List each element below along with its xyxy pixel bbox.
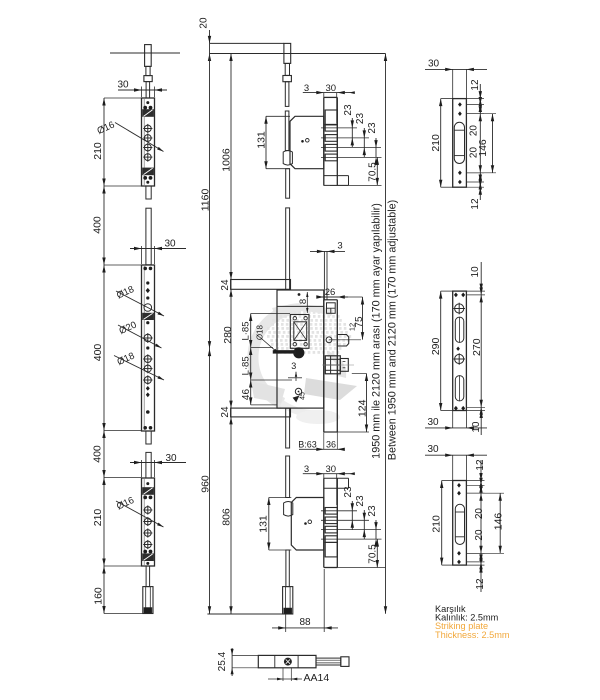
left view: door top reference line <box>110 52 180 54</box>
svg-text:30: 30 <box>164 239 176 250</box>
rod crossing upper bar <box>285 280 287 291</box>
bottom hook bolt body <box>325 542 337 557</box>
top case lower bracket <box>324 175 349 177</box>
svg-text:160: 160 <box>92 587 104 605</box>
plate3 screw holes <box>143 505 152 514</box>
plate2 hardware top pins <box>143 267 147 271</box>
top faceplate side view <box>323 97 325 185</box>
svg-text:23: 23 <box>355 495 366 507</box>
left view: top thin rod <box>146 82 150 98</box>
vertical dim line 1006/24/280/24/806 <box>230 54 232 614</box>
plate B slots <box>455 317 464 342</box>
dim 30 (plate3 top) <box>130 462 186 464</box>
dim 146 (plate C) <box>499 493 501 553</box>
left dim chain vertical line <box>103 98 105 614</box>
svg-text:Between 1950 mm and 2120 mm (1: Between 1950 mm and 2120 mm (170 mm adju… <box>386 200 398 460</box>
dim 25.4 (section) <box>231 648 233 676</box>
latch bolt <box>326 337 332 343</box>
middle top rod cylinder <box>284 43 291 63</box>
middle rod between top and middle case <box>286 169 290 199</box>
dim 23 staircase (bottom case) <box>351 501 353 530</box>
svg-text:12: 12 <box>475 578 486 590</box>
svg-text:L·85: L·85 <box>241 356 252 375</box>
plate3 hook block top <box>143 488 154 495</box>
svg-text:124: 124 <box>356 399 368 417</box>
bottom baseline <box>207 613 292 615</box>
thin push rod above middle faceplate <box>323 251 325 299</box>
plate C slot <box>455 504 464 544</box>
middle view: long top line <box>210 53 386 55</box>
bottom case pin and hole <box>304 522 307 525</box>
middle thin rod upper <box>285 82 289 107</box>
svg-text:20: 20 <box>474 529 485 541</box>
plate B corner screw holes <box>454 293 458 298</box>
dim 30 (plate2 top) <box>130 248 186 250</box>
left view: top rod / cylinder piece <box>145 45 152 67</box>
dim 3 (push rod) <box>310 250 345 252</box>
dim 270 (plate B) <box>480 262 482 435</box>
dim 210 (plate A) <box>440 99 442 188</box>
deadbolt thrown <box>325 356 340 374</box>
svg-text:L·85: L·85 <box>241 321 252 340</box>
dim 146 (plate A) <box>492 114 494 173</box>
svg-text:12: 12 <box>470 198 481 210</box>
svg-text:1950 mm ile 2120 mm arası (170: 1950 mm ile 2120 mm arası (170 mm ayar y… <box>370 203 382 459</box>
svg-text:23: 23 <box>343 486 354 498</box>
middle faceplate side view <box>323 300 325 432</box>
dim 70.5 (bottom case) <box>376 539 378 567</box>
svg-text:400: 400 <box>91 445 103 463</box>
svg-text:88: 88 <box>299 617 311 628</box>
plate2 lower pins <box>146 386 150 391</box>
svg-text:1160: 1160 <box>199 189 211 212</box>
svg-text:26: 26 <box>325 287 336 298</box>
left dim chain arrows <box>102 98 105 106</box>
svg-text:146: 146 <box>492 513 504 531</box>
plate C right dim chain <box>480 460 482 592</box>
striking plate A (top) <box>453 99 467 188</box>
small hole and dim 8 above gearbox <box>298 293 301 296</box>
upper cross bar 24mm <box>231 280 291 290</box>
svg-text:24: 24 <box>220 279 231 291</box>
lower cross bar 24mm <box>231 408 291 417</box>
plate3 top pin <box>146 482 149 485</box>
dim 70.5 (top case) <box>376 157 378 185</box>
plate2 small pins/diamonds upper <box>146 281 149 284</box>
svg-text:23: 23 <box>367 505 378 517</box>
left shoot bolt black tip <box>144 608 152 614</box>
top case pin and hole <box>301 140 304 143</box>
svg-text:23: 23 <box>367 122 378 134</box>
svg-text:B:63: B:63 <box>298 440 317 450</box>
bottom lock case body <box>291 498 324 551</box>
plate1 hook block (hatched) <box>143 106 147 110</box>
plate1 lower hook block <box>143 168 154 175</box>
section view screw <box>284 658 291 665</box>
svg-text:10: 10 <box>470 266 481 278</box>
dim 131 (bottom case) <box>268 498 270 551</box>
deadbolt center line <box>322 364 354 366</box>
svg-text:210: 210 <box>92 142 104 160</box>
svg-text:Ø18: Ø18 <box>115 284 136 302</box>
svg-text:23: 23 <box>343 104 354 116</box>
svg-text:3: 3 <box>291 361 296 371</box>
middle shoot bolt black tip <box>284 608 292 614</box>
dim 88 (bottom) <box>285 614 287 632</box>
plate A right dim chain 12/20/20/146/12 <box>479 84 481 200</box>
middle rod nut <box>283 76 292 82</box>
svg-text:30: 30 <box>428 59 440 70</box>
svg-text:12: 12 <box>470 79 481 91</box>
svg-text:46: 46 <box>241 389 252 401</box>
svg-text:806: 806 <box>220 508 232 526</box>
plate2 holes Ø18 group <box>143 354 152 363</box>
middle gear case body <box>277 290 324 408</box>
plate1 top hardware: pin <box>146 101 149 104</box>
svg-text:70.5: 70.5 <box>367 162 378 182</box>
deadbolt head <box>340 359 348 372</box>
striking plate C (bottom) <box>453 481 467 566</box>
svg-text:45: 45 <box>300 392 307 400</box>
svg-text:290: 290 <box>430 337 442 355</box>
left faceplate segment 3 (bottom) <box>142 478 155 566</box>
svg-text:1006: 1006 <box>220 148 232 172</box>
svg-text:400: 400 <box>92 344 104 362</box>
cylinder arrow mark <box>293 396 300 403</box>
svg-text:24: 24 <box>220 406 231 418</box>
svg-text:400: 400 <box>91 216 103 234</box>
cylinder cam hole <box>295 388 301 394</box>
handle follower (black) <box>293 347 304 358</box>
svg-text:960: 960 <box>199 475 211 493</box>
plate C screw holes <box>457 483 461 488</box>
top lock case body <box>290 116 324 168</box>
dim 124 (deadbolt to plate end) <box>366 374 368 433</box>
plate2 open hole Ø18 <box>144 304 152 312</box>
section screw dim lines <box>282 668 284 681</box>
svg-text:25.4: 25.4 <box>217 651 228 671</box>
svg-text:131: 131 <box>255 131 267 149</box>
striking plate B (middle) <box>453 291 467 410</box>
top hook bolt body <box>325 110 337 125</box>
gearbox square <box>290 315 309 349</box>
middle rod between gear case and bottom case <box>286 408 290 448</box>
vertical dim line 1160/960 <box>209 43 211 613</box>
middle bottom rod and shoot bolt <box>286 550 289 587</box>
left dim chain extension lines <box>104 97 142 99</box>
svg-text:30: 30 <box>165 453 177 464</box>
dim 30 (plate1 width) <box>118 89 167 91</box>
svg-text:AA14: AA14 <box>304 672 330 684</box>
plate1 screw holes <box>143 124 152 133</box>
svg-text:Ø16: Ø16 <box>95 119 116 137</box>
svg-text:Thickness: 2.5mm: Thickness: 2.5mm <box>435 630 510 640</box>
svg-text:75: 75 <box>354 316 365 328</box>
section view faceplate bar <box>258 655 316 667</box>
svg-text:20: 20 <box>469 125 480 137</box>
dim 131 (top case) <box>265 116 267 168</box>
plate B round holes <box>453 303 465 315</box>
svg-text:131: 131 <box>257 515 269 533</box>
teeth pitch extension lines (bottom case) <box>321 510 357 512</box>
svg-text:70.5: 70.5 <box>367 544 378 564</box>
section view spindle <box>316 658 341 665</box>
dim 20 (top offset) vertical line <box>209 30 211 43</box>
left faceplate segment 1 (top) <box>142 98 155 186</box>
left chain dims L85/L85/46 of gear case <box>250 314 252 405</box>
dim 290 (plate B) <box>440 291 442 410</box>
middle view: door top line <box>210 42 284 44</box>
teeth pitch extension lines (top case) <box>321 127 357 129</box>
svg-text:146: 146 <box>477 139 489 157</box>
svg-text:30: 30 <box>427 417 439 428</box>
left rod between plate1 and plate2 <box>146 186 151 199</box>
svg-text:280: 280 <box>222 326 234 344</box>
section view spindle end cap <box>341 657 349 667</box>
svg-text:30: 30 <box>117 80 129 91</box>
dim 23 staircase (top case) <box>351 118 353 147</box>
left rod between plate2 and plate3 <box>146 431 151 444</box>
plate A slot <box>454 122 464 163</box>
bottom hook teeth <box>325 508 337 515</box>
svg-text:30: 30 <box>427 444 439 455</box>
top slider block on middle faceplate <box>327 303 336 314</box>
watermark logo (light gray lion emblem) <box>247 303 357 424</box>
svg-text:210: 210 <box>430 134 442 152</box>
overall length dim line with arrows <box>385 54 387 614</box>
svg-text:20: 20 <box>199 17 210 29</box>
bottom faceplate side view <box>323 478 325 567</box>
svg-text:270: 270 <box>471 338 483 356</box>
dim 210 (plate C) <box>441 481 443 566</box>
plate A screw holes (diamonds) <box>458 102 462 107</box>
plate2 hole Ø20 <box>143 333 153 343</box>
svg-text:3: 3 <box>337 241 342 252</box>
bottom case upper bracket <box>324 477 349 479</box>
left faceplate segment 2 (middle) <box>142 265 155 431</box>
plate3 hook block bottom <box>143 550 147 554</box>
bottom case roller on rod <box>284 502 293 517</box>
top case roller on rod <box>283 151 292 166</box>
left view: top rod nut <box>144 76 152 82</box>
svg-text:12: 12 <box>475 459 486 471</box>
svg-text:36: 36 <box>326 440 336 450</box>
svg-text:20: 20 <box>474 508 485 520</box>
svg-text:23: 23 <box>355 113 366 125</box>
svg-text:Ø18: Ø18 <box>256 324 265 340</box>
svg-text:210: 210 <box>92 509 104 527</box>
left bottom rod and shoot bolt <box>146 566 150 587</box>
top hook teeth <box>325 124 337 131</box>
plate2 hatched block <box>143 313 154 319</box>
svg-text:210: 210 <box>430 515 442 533</box>
